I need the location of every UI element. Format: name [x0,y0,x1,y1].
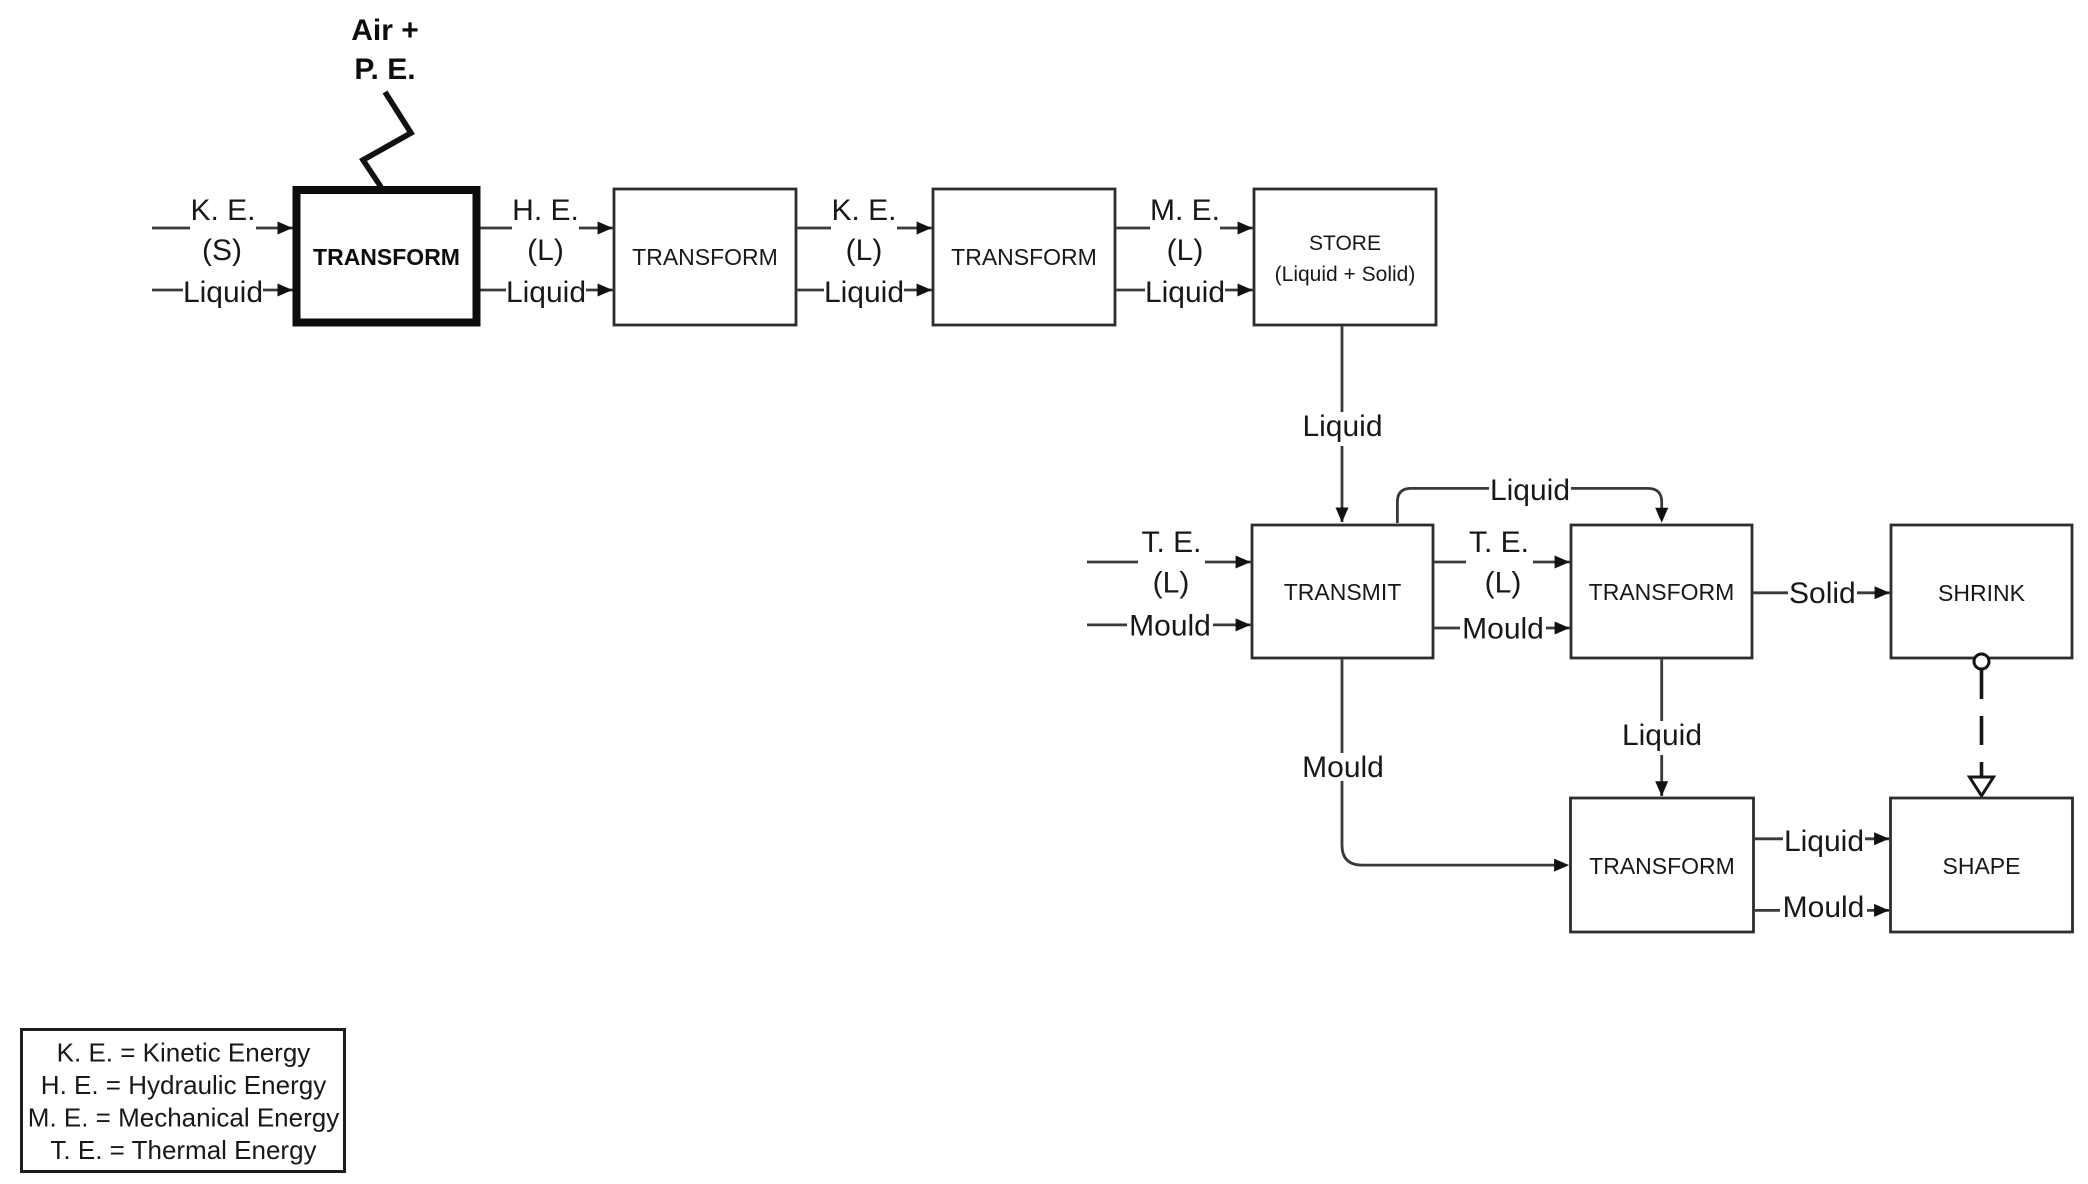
wire dashed SHRINK to SHAPE [1970,670,1994,796]
svg-text:(S): (S) [202,234,242,267]
box SHAPE [1891,798,2073,932]
wire Solid TRANSFORM4 to SHRINK [1753,577,1889,610]
wire T.E. TRANSMIT to TRANSFORM4 [1434,526,1569,600]
svg-text:Liquid: Liquid [1784,825,1864,858]
zigzag energy input wire [363,92,411,187]
wire Mould TRANSFORM5 to SHAPE [1755,891,1889,924]
svg-text:M. E. = Mechanical Energy: M. E. = Mechanical Energy [28,1103,339,1133]
wire K.E. input to box1 upper [152,194,293,267]
box TRANSMIT [1252,525,1433,658]
box TRANSFORM 5 (row3) [1571,798,1754,932]
wire T.E. input to TRANSMIT [1087,526,1251,600]
svg-text:K. E.: K. E. [190,194,255,227]
svg-text:Liquid: Liquid [1490,474,1570,507]
wire Liquid box1 to box2 [481,276,613,312]
svg-text:Liquid: Liquid [183,276,263,309]
svg-text:TRANSFORM: TRANSFORM [951,244,1097,270]
svg-text:Mould: Mould [1783,891,1865,924]
svg-text:Liquid: Liquid [1622,719,1702,752]
wire Mould input to TRANSMIT [1087,610,1251,643]
svg-text:T. E.: T. E. [1141,526,1201,559]
svg-text:SHAPE: SHAPE [1943,853,2021,879]
svg-text:Liquid: Liquid [1145,276,1225,309]
wire Liquid STORE down to TRANSMIT [1302,326,1383,522]
svg-text:Solid: Solid [1789,577,1856,610]
wire K.E. box2 to box3 [797,194,931,267]
wire Liquid TRANSFORM4 down to TRANSFORM5 [1621,659,1703,796]
box SHRINK [1891,525,2072,658]
wire Liquid recycle TRANSMIT to TRANSFORM4 [1397,474,1668,523]
svg-text:TRANSFORM: TRANSFORM [1589,853,1735,879]
svg-text:H. E. = Hydraulic Energy: H. E. = Hydraulic Energy [41,1070,326,1100]
svg-text:T. E. = Thermal Energy: T. E. = Thermal Energy [50,1135,316,1165]
box STORE [1254,189,1436,325]
svg-text:P. E.: P. E. [354,53,415,86]
svg-text:(L): (L) [527,234,564,267]
svg-text:(Liquid + Solid): (Liquid + Solid) [1275,263,1416,286]
svg-text:Mould: Mould [1129,610,1211,643]
svg-text:H. E.: H. E. [512,194,579,227]
svg-text:Mould: Mould [1302,751,1384,784]
svg-text:(L): (L) [1167,234,1204,267]
wire Liquid TRANSFORM5 to SHAPE [1755,825,1889,861]
box TRANSFORM 4 (row2) [1571,525,1752,658]
svg-text:SHRINK: SHRINK [1938,580,2026,606]
box TRANSFORM 3 [933,189,1115,325]
svg-text:Mould: Mould [1462,613,1544,646]
wire M.E. box3 to STORE [1116,194,1252,267]
svg-text:(L): (L) [1153,567,1190,600]
svg-text:M. E.: M. E. [1150,194,1220,227]
label Air + P. E. [351,14,419,86]
svg-text:K. E.: K. E. [831,194,896,227]
svg-text:TRANSFORM: TRANSFORM [313,244,460,270]
box TRANSFORM 1 (bold) [297,190,477,323]
wire Liquid box2 to box3 [797,276,931,312]
wire Liquid input to box1 lower [152,276,293,312]
wire Liquid box3 to STORE [1116,276,1252,312]
svg-text:TRANSMIT: TRANSMIT [1284,579,1402,605]
svg-text:Liquid: Liquid [1302,410,1382,443]
node circle below SHRINK [1974,654,1989,669]
svg-text:STORE: STORE [1309,232,1381,255]
svg-text:TRANSFORM: TRANSFORM [1589,579,1735,605]
box TRANSFORM 2 [614,189,796,325]
svg-text:Air +: Air + [351,14,419,47]
svg-text:Liquid: Liquid [506,276,586,309]
legend box [22,1030,345,1172]
wire Mould TRANSMIT to TRANSFORM4 [1434,613,1569,646]
svg-text:TRANSFORM: TRANSFORM [632,244,778,270]
wire H.E. box1 to box2 [481,194,613,267]
wire Mould TRANSMIT down to TRANSFORM5 [1300,659,1569,871]
svg-text:(L): (L) [846,234,883,267]
svg-text:(L): (L) [1485,567,1522,600]
svg-text:K. E. = Kinetic Energy: K. E. = Kinetic Energy [57,1038,311,1068]
svg-text:T. E.: T. E. [1469,526,1529,559]
svg-text:Liquid: Liquid [824,276,904,309]
